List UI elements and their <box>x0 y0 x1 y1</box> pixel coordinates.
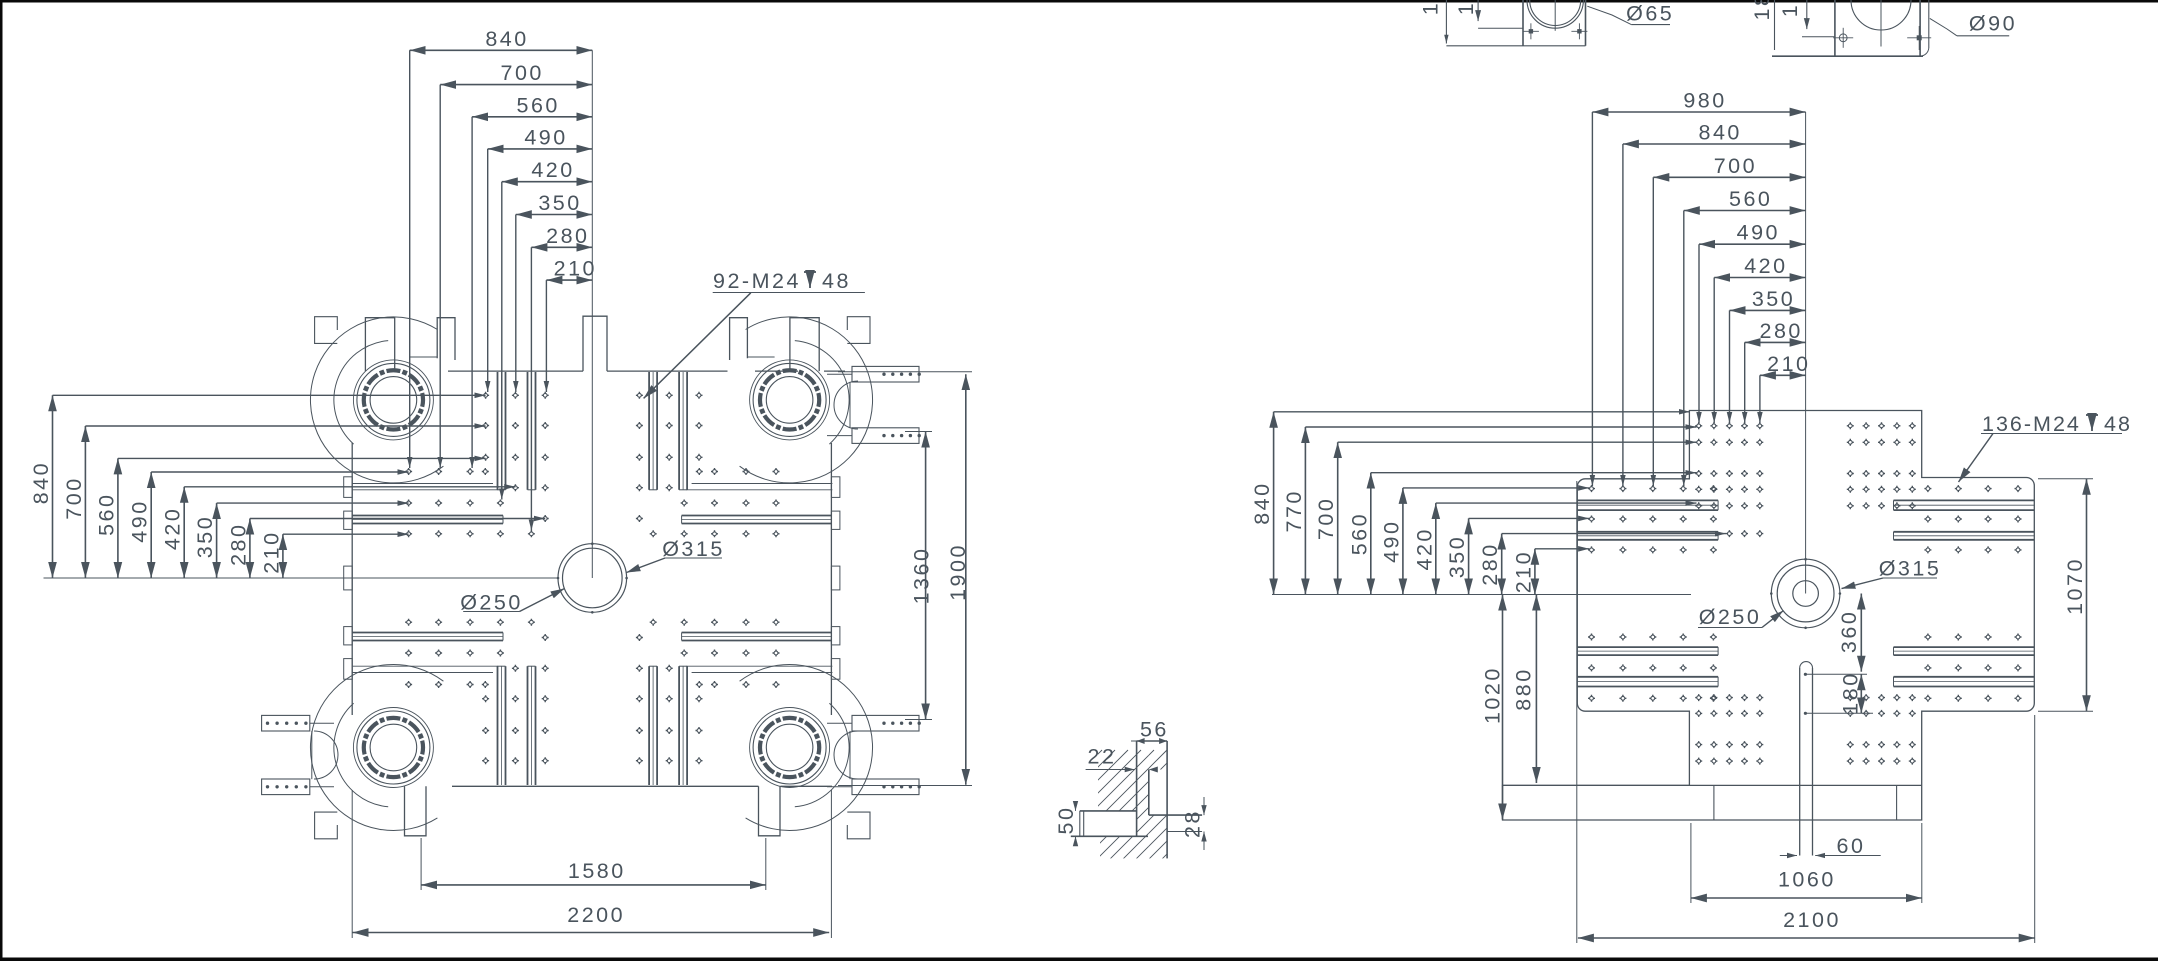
svg-text:560: 560 <box>517 93 560 117</box>
top-left boss clamp tab B <box>437 318 455 360</box>
svg-text:280: 280 <box>226 523 250 566</box>
sheet border left <box>0 0 3 961</box>
section detail dimension 22 <box>1086 769 1135 771</box>
bottom-left arm fork <box>310 723 334 787</box>
dimension 700 left chain right view <box>1337 442 1339 594</box>
left view vertical T-slots bottom <box>497 666 499 785</box>
svg-text:840: 840 <box>29 461 53 504</box>
section detail hatching <box>900 750 1440 900</box>
svg-text:840: 840 <box>1699 121 1742 145</box>
right view slot reference ticks <box>1805 673 1867 675</box>
svg-text:420: 420 <box>1744 254 1787 278</box>
svg-text:280: 280 <box>1760 319 1803 343</box>
svg-text:Ø65: Ø65 <box>1626 2 1674 26</box>
section detail dimension 50 <box>1075 803 1077 811</box>
right view central bore ring 250 <box>1777 565 1834 622</box>
section detail slot bottom <box>1149 814 1202 816</box>
right view east arm T-slots <box>1894 499 2035 501</box>
svg-text:350: 350 <box>193 515 217 558</box>
svg-text:60: 60 <box>1837 834 1866 858</box>
boss outer arc <box>740 317 873 483</box>
svg-text:490: 490 <box>524 125 567 149</box>
right view baseline horizontal <box>1272 594 1691 596</box>
dimension 560 left chain left view <box>117 458 119 578</box>
svg-text:770: 770 <box>1282 489 1306 532</box>
dimension 210 top chain left view <box>546 279 592 281</box>
left view platen left edge <box>351 443 353 715</box>
right view central bore inner <box>1793 581 1819 607</box>
boss outer arc <box>310 664 443 830</box>
dimension 770 left chain right view <box>1304 427 1306 595</box>
svg-text:420: 420 <box>531 158 574 182</box>
dimension 420 left chain right view <box>1435 503 1437 594</box>
left view left edge clamp tabs <box>344 477 353 498</box>
right view west arm holes <box>1588 485 1595 492</box>
bottom-right support arms <box>852 715 919 731</box>
left view top centre tab <box>583 316 607 371</box>
svg-text:350: 350 <box>538 191 581 215</box>
partial view A bore arcs <box>1527 0 1583 28</box>
top-left boss clamp tab A <box>365 318 394 371</box>
partial view B bolt marks <box>1839 34 1847 42</box>
svg-text:48: 48 <box>822 269 851 293</box>
svg-text:22: 22 <box>1088 745 1117 769</box>
top-right boss clamp tab B <box>730 318 748 360</box>
dimension 490 top chain left view <box>488 148 593 150</box>
section detail wall right line <box>1166 741 1168 858</box>
right view base top edge <box>1503 784 1922 786</box>
left view right edge clamp tabs <box>831 477 840 498</box>
svg-text:136-M24: 136-M24 <box>1982 412 2081 436</box>
left view horizontal T-slots left edge <box>352 515 503 517</box>
left view centre extension vertical <box>591 50 593 578</box>
dimension 700 left chain left view <box>84 426 86 578</box>
svg-text:980: 980 <box>1683 89 1726 113</box>
top-right arm fork <box>827 374 852 435</box>
leader 136-M24 right view <box>1959 434 1994 483</box>
section detail right step <box>1167 831 1202 833</box>
svg-text:48: 48 <box>2104 412 2132 436</box>
dimension 2200 left view <box>353 932 830 934</box>
left view horizontal T-slots right edge <box>682 515 832 517</box>
section detail wall left line <box>1136 741 1138 836</box>
svg-text:560: 560 <box>94 493 118 536</box>
top-right corner step <box>847 317 870 344</box>
dimension 180 right view <box>1860 674 1862 713</box>
svg-text:Ø90: Ø90 <box>1969 12 2017 36</box>
svg-text:210: 210 <box>554 257 597 281</box>
dimension 700 top chain left view <box>440 84 592 86</box>
svg-text:840: 840 <box>1250 481 1274 524</box>
svg-text:1: 1 <box>1454 1 1478 15</box>
left view centre baseline horizontal <box>44 577 559 579</box>
boss inner arc <box>334 703 388 807</box>
section detail dimension 28 <box>1203 797 1205 815</box>
svg-text:490: 490 <box>1737 221 1780 245</box>
right view platen outline <box>1503 411 2035 821</box>
dimension 210 top chain right view <box>1760 374 1806 376</box>
svg-text:1: 1 <box>1778 3 1802 17</box>
left view bottom foot left <box>405 786 427 836</box>
boss inner arc <box>795 703 849 807</box>
svg-text:700: 700 <box>1314 497 1338 540</box>
svg-text:180: 180 <box>1838 671 1862 714</box>
section detail slot inner line <box>1148 770 1150 816</box>
boss inner arc <box>334 341 388 445</box>
svg-text:700: 700 <box>1714 154 1757 178</box>
svg-text:490: 490 <box>128 499 152 542</box>
svg-text:280: 280 <box>1478 542 1502 585</box>
svg-text:1: 1 <box>1419 1 1443 15</box>
dimension 880 right view <box>1535 595 1537 784</box>
svg-text:700: 700 <box>62 476 86 519</box>
right view centre slot <box>1799 668 1801 856</box>
tie-bar boss rings <box>409 722 419 732</box>
dimension 560 left chain right view <box>1370 473 1372 595</box>
svg-text:1360: 1360 <box>910 547 934 605</box>
partial view B dimensions <box>1774 0 1776 50</box>
svg-text:1060: 1060 <box>1778 868 1836 892</box>
svg-text:210: 210 <box>259 530 283 573</box>
dimension 2100 right view <box>1578 937 2035 939</box>
dimension 1070 right view <box>2086 479 2088 711</box>
svg-text:280: 280 <box>546 224 589 248</box>
dimension 350 left chain right view <box>1468 518 1470 594</box>
right view extra holes row 533 <box>1726 530 1733 537</box>
dimension 1900 left view <box>965 374 967 785</box>
left view bore cardinal dots <box>591 542 594 545</box>
svg-text:1020: 1020 <box>1480 666 1504 724</box>
svg-text:210: 210 <box>1767 352 1810 376</box>
left view vertical T-slots top <box>497 372 499 490</box>
boss inner arc <box>795 341 849 445</box>
partial view B bore arc <box>1851 0 1911 30</box>
dimension 350 left chain left view <box>216 503 218 578</box>
svg-text:210: 210 <box>1511 550 1535 593</box>
svg-text:Ø250: Ø250 <box>1699 605 1762 629</box>
right view centre extension vertical <box>1805 112 1807 594</box>
right view west arm T-slots <box>1577 499 1718 501</box>
dimension 840 left chain right view <box>1273 412 1275 595</box>
dimension 210 left chain right view <box>1534 549 1536 595</box>
section detail nut slot <box>1080 810 1137 812</box>
right view column upper holes <box>1695 422 1702 429</box>
bottom-left corner step <box>315 812 338 839</box>
dimension 490 left chain right view <box>1402 488 1404 595</box>
dimension 560 top chain right view <box>1684 210 1806 212</box>
tie-bar boss rings <box>805 375 815 385</box>
sheet border top <box>0 0 2158 3</box>
right view base ribs <box>1713 785 1715 820</box>
boss outer arc <box>740 664 873 830</box>
dimension 1060 right view <box>1691 897 1922 899</box>
svg-text:700: 700 <box>501 61 544 85</box>
left view central bore ring 315 <box>558 544 627 613</box>
dimension 60 right view <box>1780 855 1797 857</box>
dimension 360 right view <box>1860 594 1862 672</box>
dimension 280 left chain left view <box>249 519 251 579</box>
svg-text:420: 420 <box>161 507 185 550</box>
dimension 280 top chain right view <box>1745 341 1806 343</box>
dimension 840 top chain right view <box>1623 143 1806 145</box>
svg-text:Ø315: Ø315 <box>662 537 725 561</box>
dimension 350 top chain left view <box>516 214 593 216</box>
dimension 490 top chain right view <box>1699 243 1806 245</box>
partial view A bolt marks <box>1529 29 1533 33</box>
top-right boss clamp tab A <box>790 318 819 371</box>
tie-bar boss bolts <box>418 756 424 762</box>
tie-bar boss bolts <box>418 408 424 414</box>
svg-text:560: 560 <box>1347 512 1371 555</box>
left view platen right edge <box>830 443 832 715</box>
partial view A dimensions <box>1445 0 1447 44</box>
dimension 490 left chain left view <box>150 472 152 578</box>
dimension 1020 right view <box>1502 595 1504 820</box>
left view bolt holes <box>482 392 489 399</box>
dimension 1360 left view <box>925 432 927 720</box>
dimension 420 top chain right view <box>1714 277 1805 279</box>
svg-text:18: 18 <box>1750 0 1774 20</box>
svg-text:28: 28 <box>1181 809 1205 838</box>
right view central bore ring 315 <box>1771 559 1840 628</box>
leader 92-M24 left view <box>644 293 751 399</box>
dimension 1580 left view <box>421 884 766 886</box>
svg-text:420: 420 <box>1412 527 1436 570</box>
dimension 280 top chain left view <box>531 246 592 248</box>
svg-text:880: 880 <box>1512 667 1536 710</box>
dimension 700 top chain right view <box>1653 176 1805 178</box>
section detail wall top edge <box>1137 740 1168 742</box>
dimension 840 top chain left view <box>410 49 593 51</box>
top-right support arms <box>852 366 919 382</box>
left view central bore ring 250 <box>563 548 623 608</box>
left view bottom foot right <box>759 786 781 836</box>
svg-text:1070: 1070 <box>2063 557 2087 615</box>
svg-text:840: 840 <box>485 27 528 51</box>
svg-text:560: 560 <box>1729 187 1772 211</box>
svg-text:360: 360 <box>1837 610 1861 653</box>
dimension 980 top chain right view <box>1592 111 1805 113</box>
svg-text:50: 50 <box>1054 806 1078 835</box>
boss outer arc <box>310 317 443 483</box>
left view platen bottom edge <box>452 785 759 787</box>
left view pocket contours <box>692 483 833 485</box>
svg-text:92-M24: 92-M24 <box>713 269 801 293</box>
right view column lower holes <box>1695 694 1702 701</box>
right view bore cardinal dots <box>1804 558 1807 561</box>
tie-bar boss rings <box>805 722 815 732</box>
svg-text:2100: 2100 <box>1783 908 1841 932</box>
svg-text:350: 350 <box>1752 287 1795 311</box>
svg-text:350: 350 <box>1445 535 1469 578</box>
dimension 840 left chain left view <box>52 395 54 578</box>
svg-text:1580: 1580 <box>568 859 626 883</box>
bottom-right corner step <box>847 812 870 839</box>
dimension 210 left chain left view <box>282 534 284 578</box>
svg-text:Ø315: Ø315 <box>1879 557 1942 581</box>
dimension 560 top chain left view <box>472 116 592 118</box>
tie-bar boss rings <box>409 375 419 385</box>
dimension 350 top chain right view <box>1730 309 1806 311</box>
left view platen top edge <box>448 370 583 372</box>
svg-text:2200: 2200 <box>567 903 625 927</box>
section detail dimension 56 <box>1138 740 1168 742</box>
dimension 420 top chain left view <box>502 181 593 183</box>
svg-text:56: 56 <box>1140 718 1169 742</box>
bottom-right arm fork <box>827 723 852 787</box>
svg-text:490: 490 <box>1379 520 1403 563</box>
svg-text:1900: 1900 <box>946 543 970 601</box>
partial view B body <box>1834 0 1836 56</box>
top-left corner step <box>315 317 338 344</box>
svg-text:Ø250: Ø250 <box>460 591 523 615</box>
dimension 420 left chain left view <box>183 487 185 578</box>
tie-bar boss bolts <box>814 756 820 762</box>
tie-bar boss bolts <box>814 408 820 414</box>
partial view A body <box>1522 0 1524 46</box>
dimension 280 left chain right view <box>1501 534 1503 595</box>
bottom-left support arms <box>262 715 310 731</box>
sheet border bottom <box>0 958 2158 961</box>
right view east arm holes <box>1924 485 1931 492</box>
